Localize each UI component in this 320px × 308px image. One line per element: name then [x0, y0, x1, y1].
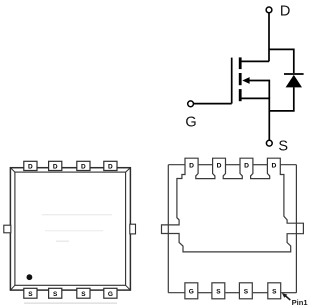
svg-text:S: S [53, 291, 58, 298]
svg-text:S: S [81, 291, 86, 298]
pin S1 box (bottom row) [24, 288, 37, 298]
svg-text:G: G [185, 115, 196, 131]
package body inner outline [15, 172, 126, 285]
bottom view pads G S S S [185, 283, 281, 299]
pad G box [185, 283, 198, 299]
body diode D1 triangle [286, 75, 302, 88]
pin D4 box [104, 161, 117, 170]
svg-text:D: D [108, 164, 113, 171]
wire drain stub [240, 60, 269, 62]
svg-text:D: D [81, 164, 86, 171]
svg-text:Pin1: Pin1 [292, 298, 309, 307]
wire diode bottom branch [269, 87, 294, 111]
pin 1 marker dot [27, 274, 33, 280]
wire drain vertical (D terminal to drain stub) [268, 13, 270, 62]
right side tab [130, 224, 136, 234]
mosfet channel bar segments [239, 57, 242, 101]
wire gate line vertical [231, 58, 233, 104]
bottom view pad labels [189, 289, 277, 296]
svg-text:D: D [28, 164, 33, 171]
svg-text:D: D [189, 163, 194, 170]
pad S2 box [212, 283, 225, 299]
body outline right edge [295, 165, 297, 293]
pin D2 box [49, 161, 62, 170]
body outline left edge [167, 165, 169, 293]
svg-text:S: S [278, 139, 288, 155]
terminal G circle [188, 101, 194, 107]
wire diode top branch [269, 49, 294, 73]
wire source stub and S vertical [240, 98, 269, 140]
mosfet body arrow (points to channel) [242, 77, 249, 84]
svg-text:G: G [189, 289, 194, 296]
pin D1 (top view, top row 1) [24, 161, 117, 298]
svg-text:D: D [53, 164, 58, 171]
bottom view D pad labels [189, 163, 276, 170]
svg-text:D: D [244, 163, 249, 170]
left side tab [4, 225, 11, 233]
body outline top edge segments (between D pads) [168, 164, 185, 166]
svg-text:S: S [216, 289, 221, 296]
faint scan smudges inside package [42, 214, 112, 215]
drain paddle outline with D pad tabs and undercut notches [162, 158, 304, 252]
svg-text:D: D [280, 4, 290, 20]
wire body stub [248, 81, 269, 99]
svg-text:S: S [28, 291, 33, 298]
svg-text:D: D [271, 163, 276, 170]
terminal S circle [266, 140, 272, 146]
pad S1 box [268, 283, 281, 299]
svg-text:G: G [108, 291, 113, 298]
pin S2 box [49, 288, 62, 298]
svg-text:D: D [217, 163, 222, 170]
body outline bottom edge segments (between bottom pads) [168, 292, 185, 294]
faint artifact line under package [24, 302, 117, 304]
wire gate horizontal to G terminal [194, 103, 232, 105]
body diode D1 cathode bar [284, 73, 304, 75]
pad S3 box [239, 283, 252, 299]
svg-text:S: S [244, 289, 249, 296]
corner bevel bottom-right [126, 285, 131, 290]
Pin1 callout arrow [282, 293, 290, 300]
pin S3 box [77, 288, 90, 298]
package body outer outline [10, 168, 130, 290]
corner bevel top-left [10, 168, 15, 172]
pin G box [104, 288, 117, 298]
svg-text:S: S [272, 289, 277, 296]
pin D3 box [77, 161, 90, 170]
corner bevel bottom-left [10, 285, 15, 290]
corner bevel top-right [126, 168, 131, 172]
terminal D circle [266, 7, 272, 13]
pin labels top view [28, 164, 113, 298]
